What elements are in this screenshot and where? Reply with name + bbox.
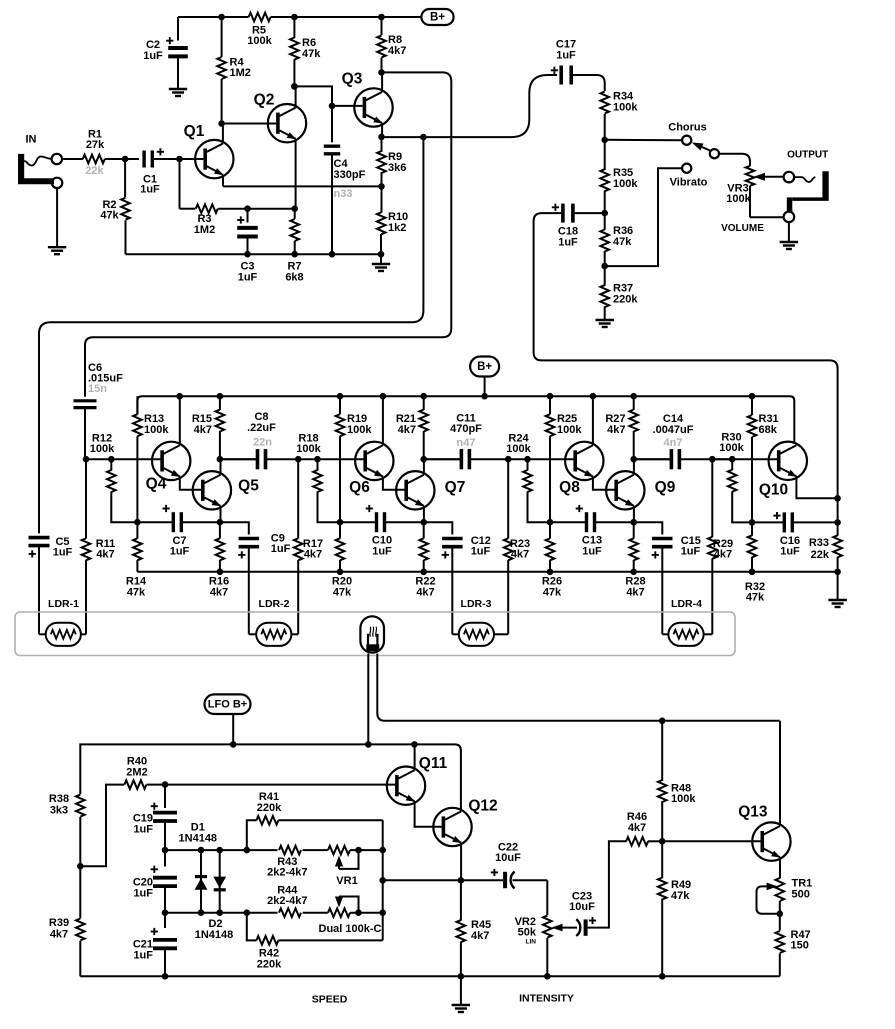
svg-text:1N4148: 1N4148 [195, 929, 234, 941]
svg-text:Q9: Q9 [655, 479, 676, 496]
svg-text:1uF: 1uF [582, 546, 602, 558]
svg-text:Q8: Q8 [559, 479, 580, 496]
svg-text:100k: 100k [347, 424, 372, 436]
svg-text:1uF: 1uF [558, 237, 578, 249]
svg-text:100k: 100k [90, 443, 115, 455]
svg-text:1uF: 1uF [53, 547, 73, 559]
svg-text:470pF: 470pF [450, 423, 482, 435]
svg-text:Q7: Q7 [445, 479, 466, 496]
svg-text:4k7: 4k7 [96, 549, 114, 561]
svg-text:Q12: Q12 [468, 798, 497, 815]
svg-text:B+: B+ [477, 361, 492, 373]
svg-text:47k: 47k [543, 587, 562, 599]
svg-text:4k7: 4k7 [511, 549, 529, 561]
svg-text:27k: 27k [86, 139, 105, 151]
svg-text:100k: 100k [247, 35, 272, 47]
svg-text:LFO B+: LFO B+ [208, 699, 247, 711]
svg-text:INTENSITY: INTENSITY [519, 993, 574, 1005]
svg-text:Chorus: Chorus [668, 122, 707, 134]
svg-text:100k: 100k [613, 102, 638, 114]
svg-text:4k7: 4k7 [628, 822, 646, 834]
svg-text:.22uF: .22uF [247, 422, 276, 434]
svg-text:1uF: 1uF [556, 50, 576, 62]
svg-text:4k7: 4k7 [607, 424, 625, 436]
svg-text:10uF: 10uF [495, 852, 521, 864]
svg-text:SPEED: SPEED [312, 994, 348, 1006]
svg-text:6k8: 6k8 [285, 272, 303, 284]
svg-text:Vibrato: Vibrato [670, 177, 708, 189]
svg-text:1uF: 1uF [471, 546, 491, 558]
svg-text:100k: 100k [144, 424, 169, 436]
svg-text:1uF: 1uF [133, 888, 153, 900]
svg-text:3k3: 3k3 [50, 805, 68, 817]
svg-text:47k: 47k [746, 592, 765, 604]
svg-text:22n: 22n [253, 437, 272, 449]
svg-text:Q11: Q11 [419, 755, 448, 772]
svg-text:TR1: TR1 [792, 878, 813, 890]
svg-text:VOLUME: VOLUME [721, 223, 764, 234]
svg-text:Q2: Q2 [254, 92, 275, 109]
svg-text:LDR-4: LDR-4 [671, 598, 702, 610]
svg-text:1uF: 1uF [780, 546, 800, 558]
svg-text:100k: 100k [613, 178, 638, 190]
svg-text:VR1: VR1 [336, 875, 357, 887]
svg-text:47k: 47k [613, 236, 632, 248]
svg-text:100k: 100k [296, 443, 321, 455]
svg-text:68k: 68k [759, 424, 778, 436]
svg-text:100k: 100k [719, 442, 744, 454]
svg-text:1uF: 1uF [133, 824, 153, 836]
svg-text:4k7: 4k7 [304, 549, 322, 561]
svg-text:2k2-4k7: 2k2-4k7 [267, 867, 307, 879]
svg-text:100k: 100k [726, 193, 751, 205]
svg-text:10uF: 10uF [569, 901, 595, 913]
svg-text:R38: R38 [49, 793, 69, 805]
svg-text:LIN: LIN [526, 939, 537, 946]
svg-text:100k: 100k [557, 424, 582, 436]
svg-text:220k: 220k [257, 802, 282, 814]
svg-text:2k2-4k7: 2k2-4k7 [267, 895, 307, 907]
svg-text:2M2: 2M2 [126, 767, 147, 779]
svg-text:4k7: 4k7 [388, 45, 406, 57]
svg-text:1N4148: 1N4148 [179, 833, 218, 845]
svg-text:47k: 47k [671, 890, 690, 902]
svg-text:n33: n33 [334, 188, 353, 200]
svg-text:4k7: 4k7 [714, 549, 732, 561]
svg-text:1uF: 1uF [170, 546, 190, 558]
svg-text:R33: R33 [809, 537, 829, 549]
svg-text:.0047uF: .0047uF [653, 424, 694, 436]
svg-text:Q13: Q13 [738, 804, 768, 821]
svg-text:500: 500 [792, 889, 810, 901]
svg-text:B+: B+ [430, 12, 445, 24]
svg-text:4k7: 4k7 [50, 929, 68, 941]
svg-text:Q5: Q5 [238, 478, 259, 495]
svg-text:Q4: Q4 [146, 476, 167, 493]
svg-text:22k: 22k [85, 165, 104, 177]
svg-text:Q1: Q1 [184, 123, 205, 140]
svg-text:47k: 47k [302, 48, 321, 60]
svg-text:4k7: 4k7 [194, 424, 212, 436]
svg-text:1uF: 1uF [238, 272, 258, 284]
svg-text:220k: 220k [257, 959, 282, 971]
svg-text:Dual 100k-C: Dual 100k-C [319, 923, 382, 935]
svg-text:OUTPUT: OUTPUT [787, 150, 828, 161]
svg-text:4n7: 4n7 [664, 437, 683, 449]
svg-text:3k6: 3k6 [388, 162, 406, 174]
svg-text:4k7: 4k7 [626, 587, 644, 599]
svg-text:1uF: 1uF [140, 184, 160, 196]
svg-text:47k: 47k [127, 587, 146, 599]
svg-text:4k7: 4k7 [398, 424, 416, 436]
svg-text:47k: 47k [100, 210, 119, 222]
svg-text:1uF: 1uF [681, 546, 701, 558]
svg-text:Q10: Q10 [759, 482, 788, 499]
svg-text:1uF: 1uF [133, 950, 153, 962]
svg-text:4k7: 4k7 [210, 587, 228, 599]
svg-text:100k: 100k [506, 443, 531, 455]
svg-text:50k: 50k [518, 927, 537, 939]
svg-text:1uF: 1uF [372, 546, 392, 558]
svg-text:1M2: 1M2 [194, 224, 215, 236]
svg-text:1uF: 1uF [271, 543, 291, 555]
svg-text:IN: IN [26, 134, 37, 146]
svg-text:4k7: 4k7 [471, 930, 489, 942]
svg-text:n47: n47 [457, 437, 476, 449]
svg-text:47k: 47k [333, 587, 352, 599]
svg-text:LDR-1: LDR-1 [48, 598, 79, 610]
svg-text:150: 150 [791, 940, 809, 952]
svg-text:15n: 15n [88, 383, 107, 395]
svg-text:Q6: Q6 [349, 479, 370, 496]
svg-text:Q3: Q3 [342, 71, 363, 88]
svg-text:LDR-2: LDR-2 [259, 598, 290, 610]
svg-text:1uF: 1uF [143, 50, 163, 62]
svg-text:1k2: 1k2 [388, 222, 406, 234]
svg-text:100k: 100k [671, 793, 696, 805]
svg-text:220k: 220k [613, 294, 638, 306]
svg-text:330pF: 330pF [334, 169, 366, 181]
svg-text:R39: R39 [49, 917, 69, 929]
svg-text:22k: 22k [811, 549, 830, 561]
svg-text:4k7: 4k7 [416, 587, 434, 599]
svg-text:LDR-3: LDR-3 [461, 598, 492, 610]
svg-text:1M2: 1M2 [230, 67, 251, 79]
